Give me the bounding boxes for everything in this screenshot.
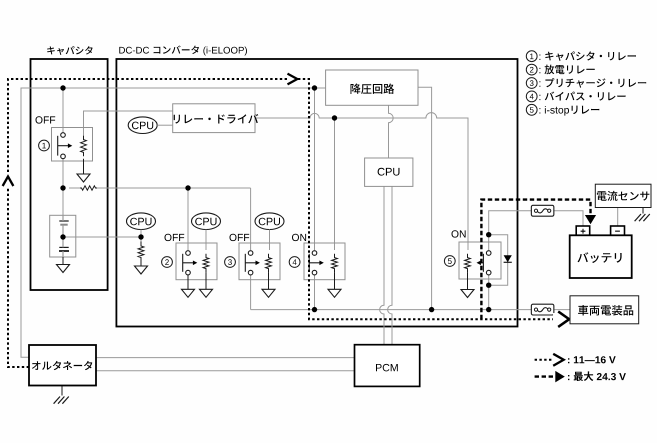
dashed flow 24.3V: to battery [481,200,590,320]
junction dot sense/CPU [138,234,143,239]
relay 5 ON label [452,230,466,237]
vehicle loads box [570,296,639,324]
relay K1 armature [57,136,59,156]
wire: down to relay2 top contact [187,188,189,250]
CPU box U2 [365,158,413,186]
filled arrow into battery + [585,215,596,224]
relay 1 number [39,140,50,151]
battery terminal + [576,226,590,236]
relay 5 number [444,256,455,267]
current sensor box [595,184,651,207]
relay 4 ON label [292,234,306,241]
relay K4 coil [332,254,338,273]
junction dot relay2 top [185,185,190,190]
relay driver box [173,104,255,133]
CPU ellipse U3 [127,213,156,230]
wire: capacitor sense line [63,236,141,238]
wire: alternator to PCM 1 [96,357,355,359]
alternator label [32,361,92,370]
wire: output rail [251,309,570,311]
wire: capacitor rail top [62,88,64,133]
wire: relay driver output line to relays 4,5 [255,113,468,250]
wire CPU to divider [140,230,142,245]
relay K4 armature [308,254,310,272]
wire: CPU-PCM link 2 (humps over rail) [388,186,392,344]
relay 2 OFF label [165,234,185,241]
fuse F1 battery line [531,205,554,216]
dashed flow 11-16V: alternator loop [8,79,295,367]
wire: diode branch [489,235,508,286]
relay K2 armature [182,254,184,272]
capacitor ground [62,257,64,265]
relay K3 box [239,243,280,280]
junction dot relay4 top [312,85,317,90]
legend arrow max 24.3V [535,375,553,377]
relay 3 number [225,257,236,268]
resistor divider [138,242,144,263]
relay2 coil ground [205,272,207,289]
wire CPU to relay2 coil [205,230,207,251]
battery label [578,252,622,263]
relay K5 contacts [486,251,491,256]
wire: step-down to CPU (hump over driver line) [389,105,394,158]
relay K1 box [52,128,93,162]
wire: relay4 bottom contact to output rail [314,275,316,310]
legend item 5 [526,104,537,115]
battery box [570,235,632,278]
CPU ellipse U5 [255,213,284,230]
junction dot capacitor rail [60,85,65,90]
alternator chassis ground [54,397,69,404]
relay 1 OFF label [36,116,56,123]
current sensor label [597,191,650,201]
legend arrow 11-16V [535,359,553,361]
wire: alternator to PCM 2 [96,370,355,372]
relay 2 number [162,257,173,268]
relay K5 box [459,242,501,279]
wire CPU to relay3 coil [269,230,271,251]
junction dot rail/step-down [429,307,434,312]
vehicle loads label [578,305,633,316]
wire: relay5 top contact to battery fuse [489,211,583,250]
junction dot relay5/diode bottom [486,283,491,288]
relay K2 box [176,243,217,280]
junction dot rail/relay5 [486,307,491,312]
diode D1 [504,255,512,262]
wire: capacitor rail mid [62,159,64,216]
junction dot relay5/diode top [486,232,491,237]
capacitor unit box [31,59,108,290]
wire: current sensor ground lead [642,208,644,214]
relay5 coil ground [467,272,469,289]
relay K2 coil [203,254,209,273]
divider ground [140,262,142,266]
capacitor unit label [47,46,92,55]
arrow up on left dashed line [2,172,14,188]
wire: relay driver output to relay1 coil [84,111,173,137]
relay K1 coil [81,136,87,156]
wire: step-down right output down to output rail [418,87,432,309]
relay K4 box [304,243,345,280]
capacitor C1 cell [50,215,76,257]
legend item 1 [526,51,537,62]
battery terminal - [611,226,625,236]
capacitor internal wire [62,215,64,257]
relay4 coil ground [334,272,336,289]
junction dot relay4 coil [332,115,337,120]
arrow right on top dashed line [288,73,298,85]
CPU ellipse U4 [192,213,221,230]
relay driver label [174,114,259,124]
relay K5 armature [482,254,484,272]
wire: relay5 bottom contact down to rail [488,275,490,310]
wire: alternator B+ up left side and top rail [21,88,326,357]
wire: battery minus to current sensor [617,208,619,227]
relay K4 contacts [312,251,317,256]
step-down circuit label [351,84,395,95]
legend item 4 [526,91,537,102]
relay K3 coil [266,254,272,273]
wire CPU to relay driver [157,124,173,126]
CPU ellipse U1 [128,117,157,134]
relay2 contact ground [187,275,189,289]
PCM box [355,345,420,387]
wire: relay4 coil feed [334,118,336,250]
relay K3 armature [244,254,246,272]
relay K1 contacts [61,133,66,138]
capacitor mid junction [60,234,65,239]
relay K3 contacts [248,251,253,256]
wire: relay4 top contact feed [314,88,316,250]
junction dot rail/relay4 [312,307,317,312]
relay3 coil ground [268,272,270,289]
wire: alternator ground lead [61,386,63,396]
fuse F2 loads line [531,304,554,315]
DC-DC converter label [119,46,247,56]
legend item 3 [526,78,537,89]
relay1 coil ground [83,159,85,174]
relay K5 coil [465,254,471,273]
alternator box [29,345,96,386]
current sensor chassis ground [635,214,650,221]
junction dot resistor line [60,185,65,190]
wire: down to relay3 top contact [250,188,252,250]
wire: relay3 bottom contact to output rail [250,275,252,310]
relay 3 OFF label [230,234,250,241]
wire + resistor: capacitor discharge line [69,187,80,189]
wire: CPU-PCM link 1 (humps over rail) [380,186,384,344]
relay K2 contacts [186,251,191,256]
DC-DC converter box [116,59,517,327]
arrow right into vehicle loads [553,313,567,326]
legend item 2 [526,64,537,75]
relay 4 number [289,257,300,268]
step-down circuit box [326,70,418,105]
